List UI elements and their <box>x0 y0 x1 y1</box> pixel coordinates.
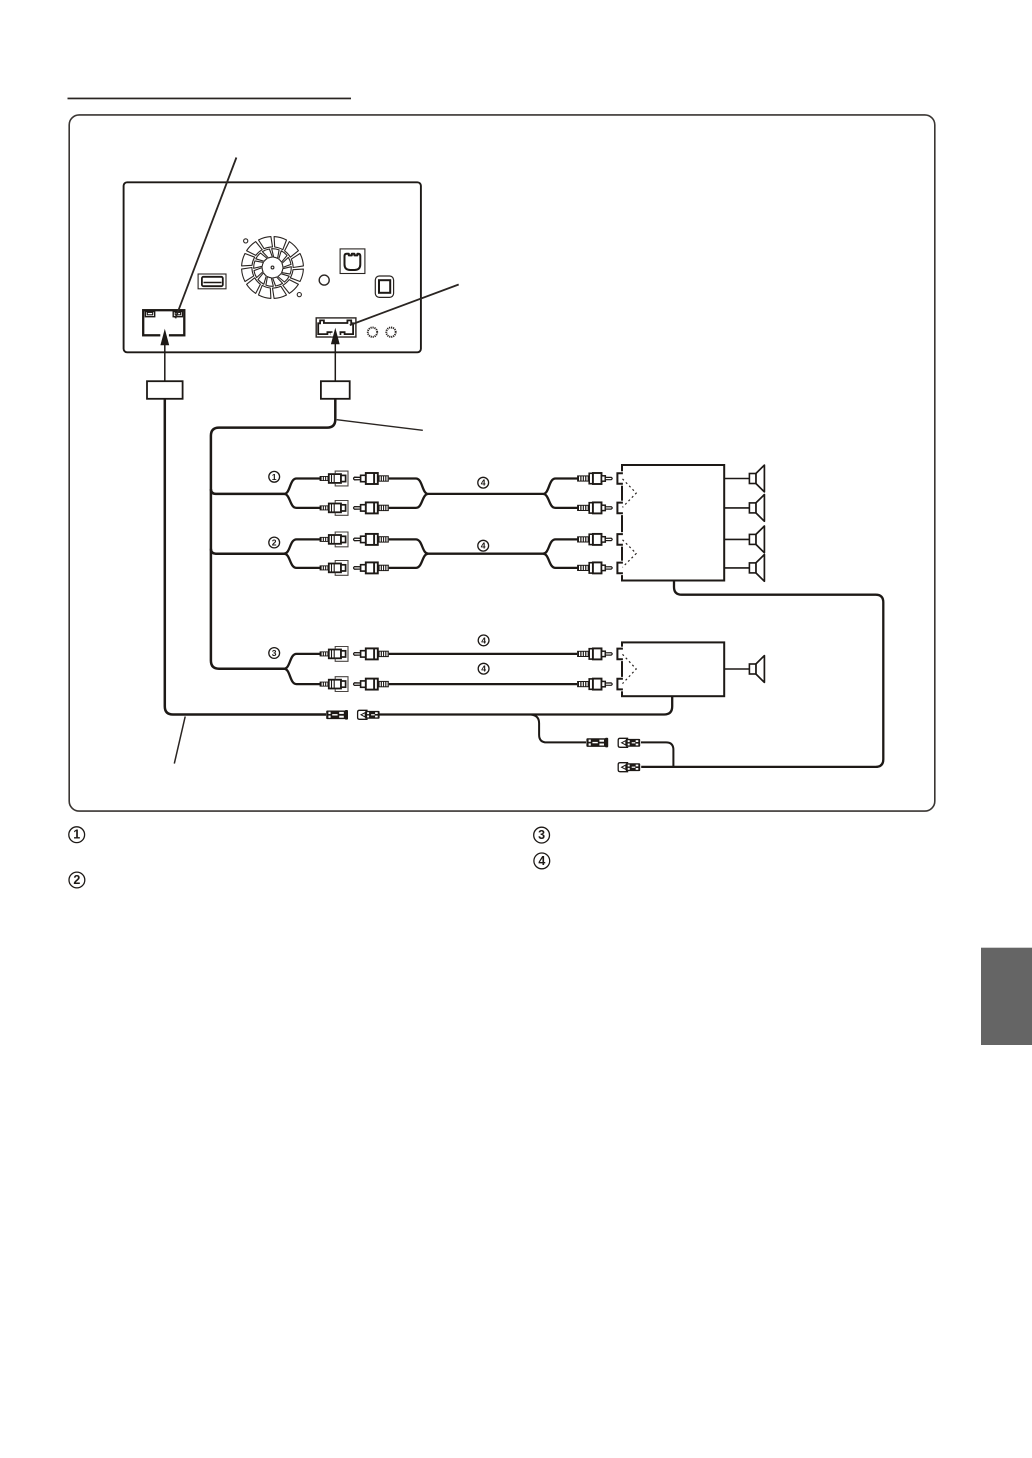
pointer line to remote lead <box>174 717 185 764</box>
amplifier 2 box <box>622 642 724 696</box>
cable 4c top wire <box>389 653 577 655</box>
speaker 4 <box>724 555 764 582</box>
cable 4b merge curves <box>389 539 578 568</box>
pair 3 split curves <box>284 654 320 684</box>
label 4 on cable 3 top <box>478 635 489 646</box>
amp power lead terminal <box>618 763 640 772</box>
RCA plug into amp 1 bottom <box>577 502 612 513</box>
svg-text:4: 4 <box>481 664 486 674</box>
svg-text:1: 1 <box>272 472 277 482</box>
remote lead terminal male <box>326 710 348 720</box>
RCA jack 1 top <box>320 471 348 486</box>
page edge tab <box>981 948 1032 1045</box>
cable 4a merge curves <box>389 479 578 508</box>
amp1 chevron bottom <box>623 540 637 568</box>
optical digital connector <box>340 249 365 274</box>
speaker 5 <box>724 656 764 683</box>
speaker 3 <box>724 526 764 553</box>
label 3 on cable <box>269 648 280 659</box>
arrow into RCA connector <box>331 328 340 381</box>
RCA plug 4a bottom <box>354 502 389 513</box>
amp2 input notch 1 <box>615 647 625 661</box>
amp2 input notch 2 <box>615 677 625 691</box>
amp1 input notch 1 <box>615 471 625 485</box>
legend number 3 <box>534 827 550 843</box>
terminal jumper wire <box>641 742 673 767</box>
remote wire branch down <box>531 715 586 743</box>
pointer line to power connector <box>175 158 236 319</box>
svg-text:4: 4 <box>481 541 486 551</box>
RCA plug 4c bottom <box>354 679 389 690</box>
RCA plug 4c top <box>354 648 389 659</box>
svg-text:2: 2 <box>272 538 277 548</box>
RCA plug 4b top <box>354 534 389 545</box>
speaker 2 <box>724 495 764 522</box>
RCA plug into amp 3 bottom <box>577 679 612 690</box>
label 4 on cable 2 <box>478 540 489 551</box>
RCA lead block <box>321 381 350 399</box>
battery lead terminal male <box>586 738 608 748</box>
amp1 chevron top <box>623 479 637 507</box>
RCA plug into amp 3 top <box>577 648 612 659</box>
pointer line to extension cable <box>337 420 423 431</box>
cable 4c bottom wire <box>389 683 577 685</box>
svg-text:4: 4 <box>538 854 545 868</box>
RCA jack 2 top <box>320 532 348 547</box>
legend number 4 <box>534 853 550 869</box>
svg-text:3: 3 <box>538 828 545 842</box>
svg-text:1: 1 <box>73 828 80 842</box>
USB connector <box>198 274 226 289</box>
amp1 input notch 3 <box>615 532 625 546</box>
amp1 input notch 4 <box>615 561 625 575</box>
square connector <box>375 276 393 297</box>
svg-text:3: 3 <box>272 648 277 658</box>
svg-text:4: 4 <box>481 635 486 645</box>
diagram border box <box>69 115 935 811</box>
arrow into power connector <box>160 329 169 381</box>
round hole left <box>368 328 377 337</box>
label 4 on cable 3 bottom <box>478 663 489 674</box>
amp1 power wire <box>641 581 883 767</box>
svg-text:4: 4 <box>481 478 486 488</box>
fan screw hole top-left <box>244 239 248 243</box>
wire from power block to remote lead <box>165 399 326 715</box>
RCA plug into amp 1 top <box>577 473 612 484</box>
legend number 1 <box>69 827 85 843</box>
trunk branch to pair 2 <box>211 549 285 554</box>
round antenna jack <box>319 275 329 285</box>
amplifier 1 box <box>622 465 724 581</box>
rear RCA output connector <box>316 318 356 337</box>
power lead block <box>147 381 183 399</box>
head unit rear panel <box>124 182 421 352</box>
speaker 1 <box>724 465 764 492</box>
RCA plug 4b bottom <box>354 562 389 573</box>
cooling fan <box>242 237 304 299</box>
label 4 on cable 1 <box>478 477 489 488</box>
RCA jack 1 bottom <box>320 501 348 516</box>
remote lead terminal female <box>358 710 380 719</box>
RCA plug into amp 2 bottom <box>577 562 612 573</box>
RCA plug into amp 2 top <box>577 534 612 545</box>
pointer line to RCA connector <box>350 285 459 326</box>
RCA plug 4a top <box>354 473 389 484</box>
power harness connector <box>143 310 184 337</box>
svg-text:2: 2 <box>73 873 80 887</box>
battery lead terminal female <box>618 738 640 747</box>
remote wire right segment <box>379 696 672 714</box>
legend number 2 <box>69 872 85 888</box>
round hole right <box>386 328 395 337</box>
wire from RCA block (trunk) <box>211 399 335 669</box>
RCA jack 3 top <box>320 647 348 662</box>
amp2 chevron <box>623 654 637 683</box>
title underline <box>68 98 352 100</box>
fan screw hole bottom-right <box>297 293 301 297</box>
trunk branch to pair 1 <box>211 489 285 494</box>
RCA jack 2 bottom <box>320 561 348 576</box>
amp1 input notch 2 <box>615 501 625 515</box>
pair 1 split curves <box>284 479 320 508</box>
pair 2 split curves <box>284 539 320 568</box>
label 1 on cable <box>269 471 280 482</box>
label 2 on cable <box>269 537 280 548</box>
RCA jack 3 bottom <box>320 677 348 692</box>
